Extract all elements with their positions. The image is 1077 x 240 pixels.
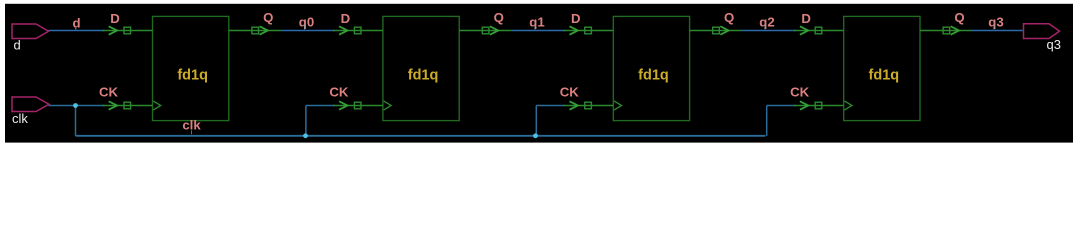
svg-text:q3: q3 bbox=[1047, 37, 1061, 52]
svg-text:CK: CK bbox=[329, 85, 349, 100]
svg-text:clk: clk bbox=[182, 118, 201, 133]
svg-text:Q: Q bbox=[494, 10, 504, 25]
svg-text:q2: q2 bbox=[759, 14, 774, 29]
svg-text:d: d bbox=[14, 38, 21, 53]
svg-text:Q: Q bbox=[263, 10, 273, 25]
svg-text:D: D bbox=[341, 11, 351, 26]
svg-text:clk: clk bbox=[12, 111, 28, 126]
svg-text:fd1q: fd1q bbox=[638, 68, 669, 84]
svg-text:d: d bbox=[72, 16, 80, 31]
svg-text:D: D bbox=[801, 11, 811, 26]
svg-text:D: D bbox=[571, 11, 581, 26]
svg-text:CK: CK bbox=[560, 85, 580, 100]
svg-text:fd1q: fd1q bbox=[408, 68, 439, 84]
svg-text:q3: q3 bbox=[988, 14, 1003, 29]
svg-text:Q: Q bbox=[724, 10, 734, 25]
svg-text:fd1q: fd1q bbox=[177, 68, 208, 84]
svg-text:CK: CK bbox=[99, 85, 119, 100]
svg-text:D: D bbox=[110, 11, 120, 26]
svg-text:Q: Q bbox=[954, 10, 964, 25]
svg-text:q0: q0 bbox=[299, 14, 314, 29]
svg-text:q1: q1 bbox=[529, 14, 544, 29]
svg-text:CK: CK bbox=[790, 85, 810, 100]
svg-text:fd1q: fd1q bbox=[869, 68, 900, 84]
